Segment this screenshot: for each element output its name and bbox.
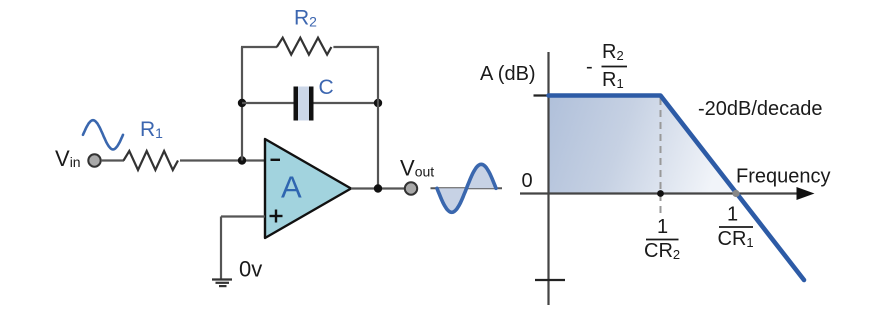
wire R2 branch right	[333, 46, 379, 48]
tick below origin	[535, 279, 565, 281]
node junction right of C	[374, 99, 382, 107]
svg-text:Vout: Vout	[400, 156, 434, 181]
node dot at 1/CR1	[732, 190, 739, 197]
svg-text:CR2: CR2	[644, 240, 680, 262]
svg-text:A (dB): A (dB)	[480, 63, 536, 85]
wire R1 to op-amp inverting input	[180, 159, 265, 161]
terminal Vout	[405, 182, 417, 194]
wire Vin to R1	[101, 159, 124, 161]
svg-text:R2: R2	[602, 41, 624, 63]
op-amp U1 body	[265, 139, 351, 238]
svg-text:-: -	[586, 56, 593, 78]
svg-text:A: A	[281, 170, 302, 205]
axis horizontal frequency	[520, 192, 800, 194]
svg-text:R1: R1	[140, 118, 163, 141]
resistor R1	[124, 151, 179, 170]
node junction left of C	[238, 99, 246, 107]
op-amp inverting input marker	[271, 159, 281, 161]
dashed line at corner frequency	[660, 98, 662, 214]
wire to ground	[220, 217, 222, 280]
capacitor C left plate	[294, 87, 299, 121]
wire R2 branch left	[241, 46, 277, 48]
wire feedback right vertical	[377, 47, 379, 189]
svg-text:0v: 0v	[239, 257, 262, 282]
wire non-inverting input	[221, 215, 265, 217]
capacitor C right plate	[309, 87, 314, 121]
response curve	[549, 96, 805, 281]
node dot at 1/CR2	[657, 190, 664, 197]
svg-text:1: 1	[727, 204, 738, 226]
wire op-amp output	[351, 187, 405, 189]
axis arrowhead	[797, 187, 815, 200]
output sine wave symbol	[437, 164, 496, 212]
op-amp non-inverting input marker	[270, 215, 283, 217]
axis vertical A(dB)	[547, 52, 549, 305]
capacitor C dielectric fill	[298, 87, 309, 121]
node junction at output	[374, 184, 382, 192]
svg-text:C: C	[319, 76, 334, 99]
svg-text:CR1: CR1	[718, 228, 754, 250]
svg-text:Frequency: Frequency	[736, 166, 831, 188]
input sine wave symbol	[83, 120, 123, 149]
svg-text:0: 0	[522, 170, 533, 192]
wire C branch right	[314, 102, 379, 104]
svg-text:1: 1	[657, 216, 668, 238]
resistor R2	[277, 38, 332, 55]
svg-text:R1: R1	[602, 69, 624, 91]
svg-text:R2: R2	[294, 7, 317, 30]
tick gain level	[534, 94, 551, 96]
svg-text:Vin: Vin	[55, 146, 81, 171]
wire feedback left vertical	[241, 47, 243, 161]
wire C branch left	[242, 102, 294, 104]
output sine baseline	[431, 187, 503, 189]
terminal Vin	[88, 154, 100, 166]
node junction at inverting input	[238, 156, 246, 164]
ground	[212, 278, 232, 280]
svg-text:-20dB/decade: -20dB/decade	[698, 98, 823, 120]
